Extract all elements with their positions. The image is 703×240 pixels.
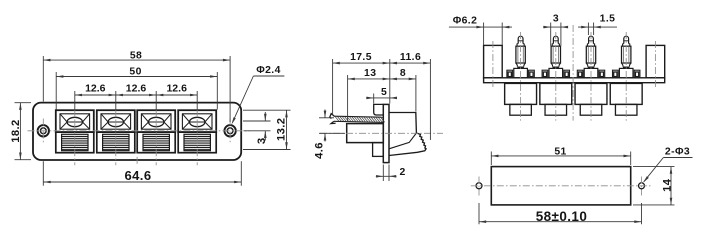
side view: solder lug with hatching <box>334 116 384 117</box>
top view: pin 1 <box>518 36 523 43</box>
front view: terminal block 4 cross pattern <box>182 114 189 122</box>
side view: flange plate <box>383 104 389 162</box>
side view: top step <box>374 104 384 115</box>
bottom view: hole centerline stubs <box>478 177 480 196</box>
dimension 51 (bottom view) <box>490 152 492 166</box>
front view: terminal block 1 upper box <box>56 110 94 132</box>
svg-text:Φ2.4: Φ2.4 <box>256 65 281 76</box>
top view: pin 2 body block below plate <box>540 83 572 104</box>
top view: pin 3 lower step block <box>580 104 602 115</box>
dimension 50 (front) <box>55 72 57 110</box>
top view: pin 3 centerline <box>590 32 592 121</box>
svg-text:64.6: 64.6 <box>125 168 152 183</box>
front view: terminal block 3 cross pattern <box>141 114 148 122</box>
svg-text:4.6: 4.6 <box>313 142 325 159</box>
label 2-dia3 with leader <box>644 158 664 182</box>
front view: horizontal centerline <box>28 130 250 132</box>
svg-text:13.2: 13.2 <box>276 118 288 141</box>
top view: pin 3 body block below plate <box>575 83 607 104</box>
dimension 4.6 (side left) <box>319 117 334 119</box>
dimension 8 (side) <box>415 75 417 112</box>
top view: pin 3 <box>589 36 594 43</box>
front view: terminal plate outline <box>33 103 241 160</box>
dimension 11.6 (side) <box>429 59 431 140</box>
front view: right mounting hole <box>224 125 235 136</box>
top view: pin 1 body block below plate <box>505 83 537 104</box>
top view: pin 2 hold-down clips <box>542 70 548 78</box>
svg-text:11.6: 11.6 <box>400 52 421 63</box>
dimension 13.2 (front right) <box>243 109 291 111</box>
svg-text:3: 3 <box>553 14 559 25</box>
dimension 1.5 (top view, pin tip width) <box>587 23 589 36</box>
svg-text:58±0.10: 58±0.10 <box>536 209 588 224</box>
front view: terminal block 2 spring grille <box>103 136 129 138</box>
top view: post centerlines <box>492 41 494 87</box>
dimension 58 (front top) <box>42 56 44 102</box>
front view: hole centerlines vertical <box>42 119 44 144</box>
svg-text:58: 58 <box>130 51 142 62</box>
front view: terminal block 3 spring grille <box>143 136 169 138</box>
svg-text:17.5: 17.5 <box>350 52 372 63</box>
top view: pin 4 body block below plate <box>610 83 642 104</box>
front view: terminal block 2 upper box <box>97 110 135 132</box>
front view: terminal block 1 ellipse <box>67 117 82 126</box>
dimension 64.6 (front bottom) <box>42 161 44 186</box>
dimension 13 (side) <box>347 75 349 122</box>
top view: pin 3 hold-down clips <box>577 70 583 78</box>
top view: pin 1 hold-down clips <box>507 70 513 78</box>
svg-text:12.6: 12.6 <box>166 83 187 95</box>
bottom view: horizontal centerline <box>471 185 651 187</box>
front view: terminal block 2 ellipse <box>108 117 123 126</box>
label dia 2.4 with leader <box>232 76 253 123</box>
top view: pin 2 <box>553 36 558 43</box>
front view: terminal block 2 cross pattern <box>101 114 108 122</box>
bottom view: left mounting hole <box>476 183 482 189</box>
svg-text:2-Φ3: 2-Φ3 <box>665 146 690 157</box>
dimension 3 (top view, pin body width) <box>550 23 552 46</box>
svg-text:12.6: 12.6 <box>85 83 106 95</box>
dimension 58 +/-0.10 (bottom view) <box>478 203 480 224</box>
svg-text:Φ6.2: Φ6.2 <box>453 15 478 26</box>
top view: pin 1 centerline <box>520 32 522 121</box>
front view: block centerlines <box>74 110 76 165</box>
svg-text:3: 3 <box>256 137 268 144</box>
top view: pin 4 centerline <box>625 32 627 121</box>
top view: left end post <box>484 45 503 77</box>
svg-text:18.2: 18.2 <box>10 119 22 142</box>
dimension 18.2 (front left) <box>15 102 32 104</box>
dimension 3 (front right) <box>243 120 271 122</box>
dimension dia 6.2 (top view) <box>483 23 485 46</box>
front view: terminal block 3 ellipse <box>149 117 164 126</box>
svg-text:13: 13 <box>364 68 376 79</box>
dimension 5 (side) <box>373 94 375 104</box>
front view: terminal block 1 spring grille <box>62 136 88 138</box>
svg-text:8: 8 <box>400 68 406 79</box>
svg-text:5: 5 <box>381 87 387 98</box>
side view: lever inner edge <box>389 133 416 149</box>
top view: pin 4 hold-down clips <box>613 70 619 78</box>
top view: pin 4 <box>624 36 629 43</box>
front view: plate mid centerline stub <box>136 157 138 165</box>
front view: terminal block 4 lower box <box>178 132 216 153</box>
svg-text:14: 14 <box>661 178 673 192</box>
front view: terminal block 4 upper box <box>178 110 216 132</box>
dimension 14 (bottom view) <box>633 166 675 168</box>
bottom view: rear plate rectangle <box>491 167 630 205</box>
side view: clamp lever with serrated grip <box>389 113 426 156</box>
side view: centerline <box>320 132 443 134</box>
front view: terminal block 4 spring grille <box>184 136 210 138</box>
top view: pin 4 lower step block <box>615 104 637 115</box>
svg-text:2: 2 <box>400 167 406 178</box>
top view: base plate bar <box>484 78 665 83</box>
top view: central axis centerline <box>572 25 574 121</box>
top view: pin 2 centerline <box>555 32 557 121</box>
front view: terminal block 3 upper box <box>137 110 175 132</box>
svg-text:12.6: 12.6 <box>126 83 147 95</box>
front view: terminal block 1 cross pattern <box>60 114 67 122</box>
front view: terminal block 2 lower box <box>97 132 135 153</box>
top view: pin 1 lower step block <box>510 104 531 115</box>
top view: right end post <box>646 45 665 77</box>
front view: terminal block 4 ellipse <box>190 117 205 126</box>
svg-text:1.5: 1.5 <box>600 14 616 25</box>
side view: lower step <box>373 143 384 157</box>
front view: terminal block 1 lower box <box>56 132 94 153</box>
dimension 17.5 (side) <box>332 59 334 115</box>
dimensions 12.6 x3 (front) <box>74 91 76 110</box>
top view: pin 2 lower step block <box>545 104 567 115</box>
front view: terminal block 3 lower box <box>137 132 175 153</box>
bottom view: right mounting hole <box>639 183 645 189</box>
side view: body <box>347 124 384 143</box>
front view: left mounting hole <box>38 125 49 136</box>
side view: lug hook <box>330 114 334 119</box>
svg-text:51: 51 <box>554 146 566 157</box>
svg-text:50: 50 <box>129 67 141 78</box>
dimension 2 (side bottom) <box>382 165 384 182</box>
